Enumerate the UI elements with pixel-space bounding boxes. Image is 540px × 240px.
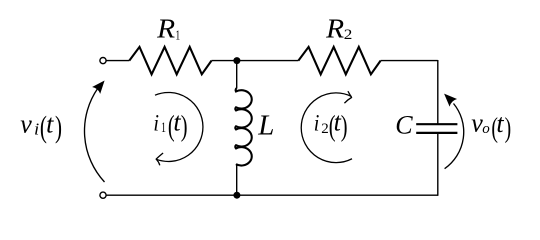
mesh current arrow i2 bbox=[301, 93, 352, 163]
wire R2 to corner bbox=[381, 60, 438, 62]
svg-text:R: R bbox=[325, 14, 345, 44]
resistor R1 bbox=[129, 47, 211, 74]
inductor L lead bottom bbox=[236, 164, 238, 195]
svg-text:1: 1 bbox=[176, 29, 181, 44]
mesh current arrow i2 barb bbox=[344, 91, 351, 103]
node dot bottom bbox=[233, 192, 240, 199]
wire top-left bbox=[106, 60, 129, 62]
voltage arrow v_i curve bbox=[84, 88, 104, 182]
label R2 bbox=[325, 14, 352, 44]
svg-text:v: v bbox=[20, 109, 32, 138]
node dot top bbox=[233, 57, 240, 64]
voltage arrow v_o curve bbox=[445, 104, 464, 169]
voltage arrow v_o head bbox=[440, 90, 457, 107]
svg-text:1: 1 bbox=[161, 120, 166, 136]
wire node to R2 bbox=[237, 60, 299, 62]
resistor R2 bbox=[298, 47, 380, 74]
terminal top-left bbox=[100, 58, 106, 64]
svg-text:): ) bbox=[181, 109, 188, 143]
svg-text:t: t bbox=[46, 110, 54, 139]
svg-text:): ) bbox=[55, 109, 62, 144]
label v_i(t) bbox=[20, 109, 62, 144]
label i2(t) bbox=[314, 108, 348, 143]
inductor L coil bbox=[235, 88, 251, 166]
mesh current arrow i1 barb bbox=[156, 153, 163, 165]
label v_o(t) bbox=[471, 109, 511, 145]
mesh current arrow i1 bbox=[155, 92, 203, 161]
voltage arrow v_i head bbox=[92, 77, 109, 94]
svg-text:2: 2 bbox=[344, 27, 353, 43]
label i1(t) bbox=[153, 108, 187, 143]
svg-text:R: R bbox=[156, 13, 176, 43]
svg-text:2: 2 bbox=[321, 121, 329, 137]
svg-text:C: C bbox=[395, 111, 413, 140]
svg-text:t: t bbox=[496, 109, 504, 138]
svg-text:L: L bbox=[257, 110, 274, 142]
svg-text:i: i bbox=[34, 120, 39, 139]
svg-text:): ) bbox=[341, 109, 348, 143]
label R1 bbox=[156, 13, 180, 43]
capacitor C bbox=[416, 124, 457, 133]
wire right vertical bottom bbox=[437, 133, 439, 196]
svg-text:o: o bbox=[482, 121, 490, 137]
terminal bottom-left bbox=[100, 192, 106, 198]
svg-text:): ) bbox=[505, 113, 512, 145]
svg-text:i: i bbox=[314, 111, 320, 136]
wire R1 to node bbox=[212, 60, 237, 62]
svg-text:i: i bbox=[153, 111, 159, 136]
wire right vertical top bbox=[437, 60, 439, 124]
wire bottom rail bbox=[106, 194, 437, 196]
inductor L lead top bbox=[236, 61, 238, 89]
